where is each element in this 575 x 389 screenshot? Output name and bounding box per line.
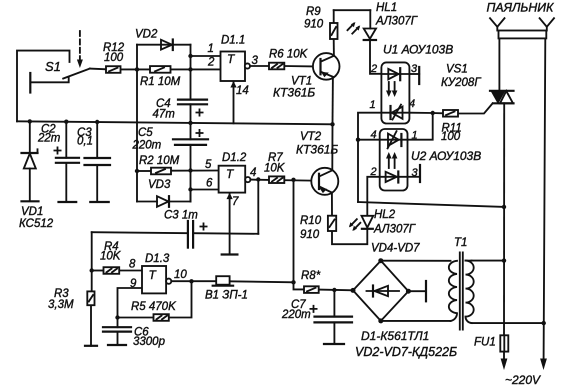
svg-text:D1-К561ТЛ1: D1-К561ТЛ1 xyxy=(361,329,429,343)
svg-text:47m: 47m xyxy=(153,109,176,121)
svg-text:T1: T1 xyxy=(454,237,467,249)
svg-text:R2 10M: R2 10M xyxy=(139,155,180,167)
svg-text:3: 3 xyxy=(411,63,418,75)
svg-text:В1 ЗП-1: В1 ЗП-1 xyxy=(205,290,248,302)
svg-text:2: 2 xyxy=(207,57,215,69)
svg-text:VD4-VD7: VD4-VD7 xyxy=(371,243,420,255)
svg-text:D1.1: D1.1 xyxy=(221,35,245,47)
svg-text:100: 100 xyxy=(441,131,461,143)
svg-text:6: 6 xyxy=(206,178,213,190)
svg-text:КУ208Г: КУ208Г xyxy=(441,77,481,89)
svg-text:2: 2 xyxy=(370,63,377,75)
svg-text:100: 100 xyxy=(104,52,124,64)
svg-text:C5: C5 xyxy=(138,127,153,139)
svg-text:9: 9 xyxy=(130,278,137,290)
svg-text:R5 470K: R5 470K xyxy=(131,301,177,313)
svg-text:VT2: VT2 xyxy=(300,131,322,143)
svg-text:0,1: 0,1 xyxy=(77,136,93,148)
svg-text:HL2: HL2 xyxy=(374,209,396,221)
svg-text:3: 3 xyxy=(252,55,259,67)
svg-text:U2 АОУ103В: U2 АОУ103В xyxy=(411,149,481,163)
svg-text:VS1: VS1 xyxy=(446,64,468,76)
svg-text:22m: 22m xyxy=(37,133,61,145)
svg-text:КТ361Б: КТ361Б xyxy=(296,143,338,157)
svg-text:R9: R9 xyxy=(306,6,321,18)
svg-text:2: 2 xyxy=(370,166,377,178)
svg-text:~220V: ~220V xyxy=(505,373,541,387)
svg-text:S1: S1 xyxy=(45,59,61,74)
svg-text:HL1: HL1 xyxy=(376,2,397,14)
svg-text:10K: 10K xyxy=(264,163,286,175)
svg-text:910: 910 xyxy=(304,19,324,31)
svg-text:1: 1 xyxy=(208,43,214,55)
svg-text:VD3: VD3 xyxy=(148,179,171,191)
svg-text:3,3М: 3,3М xyxy=(48,299,74,311)
svg-text:C3 1m: C3 1m xyxy=(164,210,198,222)
svg-text:8: 8 xyxy=(129,259,136,271)
svg-text:14: 14 xyxy=(236,85,249,97)
svg-text:R1 10M: R1 10M xyxy=(140,76,181,88)
svg-text:3300p: 3300p xyxy=(133,336,166,348)
svg-text:4: 4 xyxy=(409,98,415,110)
svg-text:7: 7 xyxy=(232,196,239,208)
svg-text:220m: 220m xyxy=(132,140,162,152)
svg-text:VD2: VD2 xyxy=(135,29,158,41)
svg-text:910: 910 xyxy=(300,229,320,241)
svg-text:R10: R10 xyxy=(300,215,322,227)
svg-text:4: 4 xyxy=(250,167,256,179)
svg-text:10K: 10K xyxy=(100,251,122,263)
svg-text:10: 10 xyxy=(174,269,187,281)
svg-text:R6 10K: R6 10K xyxy=(269,49,309,61)
svg-text:КТ361Б: КТ361Б xyxy=(273,86,315,100)
svg-text:U1 АОУ103В: U1 АОУ103В xyxy=(383,43,453,57)
svg-text:1: 1 xyxy=(370,99,376,111)
svg-text:АЛ307Г: АЛ307Г xyxy=(373,224,416,236)
svg-text:220m: 220m xyxy=(281,309,311,321)
svg-text:D1.2: D1.2 xyxy=(222,152,247,164)
svg-text:АЛ307Г: АЛ307Г xyxy=(375,16,418,28)
svg-text:КС512: КС512 xyxy=(19,218,54,230)
svg-text:3: 3 xyxy=(412,167,419,179)
svg-text:4: 4 xyxy=(371,129,377,141)
svg-text:ПАЯЛЬНИК: ПАЯЛЬНИК xyxy=(487,1,555,15)
svg-text:VD1: VD1 xyxy=(21,206,43,218)
svg-text:FU1: FU1 xyxy=(474,337,496,349)
svg-text:5: 5 xyxy=(205,159,212,171)
svg-text:R8*: R8* xyxy=(301,270,321,282)
svg-text:1: 1 xyxy=(412,130,418,142)
svg-text:D1.3: D1.3 xyxy=(145,253,170,265)
svg-text:VD2-VD7-КД522Б: VD2-VD7-КД522Б xyxy=(355,345,457,359)
